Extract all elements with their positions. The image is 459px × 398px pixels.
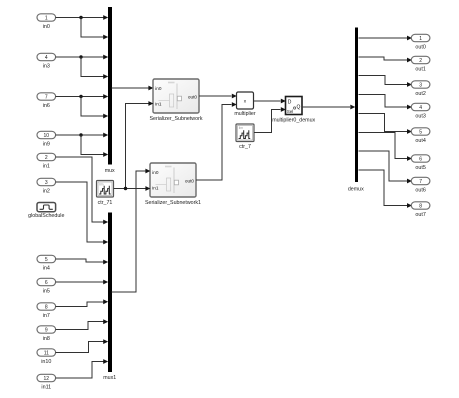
wire in9 branch to mux input — [81, 135, 108, 157]
input port in8 — [37, 326, 56, 342]
wire in7 to mux1 input — [56, 299, 109, 306]
wire demux tap 2 to out1 — [358, 57, 412, 63]
wire in2 to mux1 input 2 — [56, 182, 109, 244]
svg-text:in4: in4 — [43, 266, 50, 272]
counter block ctr_7 — [236, 124, 254, 150]
output port out4 — [411, 128, 430, 144]
multiplier block — [234, 92, 255, 117]
svg-text:9: 9 — [45, 327, 48, 333]
output port out3 — [411, 103, 430, 119]
junction on ctr_71 wire — [124, 187, 127, 190]
svg-text:4: 4 — [45, 55, 48, 61]
svg-text:in3: in3 — [43, 64, 50, 70]
svg-text:in8: in8 — [43, 336, 50, 342]
input port in7 — [37, 303, 56, 319]
output port out1 — [411, 56, 430, 72]
wire in4 to mux1 input — [56, 259, 109, 264]
svg-text:3: 3 — [45, 180, 48, 186]
input port in9 — [37, 131, 56, 147]
wire in11 to mux1 input — [56, 359, 109, 378]
wire multiplier output to multiplier0_demux D — [254, 99, 286, 104]
svg-text:Serializer_Subnetwork1: Serializer_Subnetwork1 — [145, 200, 201, 206]
junction on in6 wire — [79, 95, 82, 98]
wire in9 to mux input — [56, 133, 109, 138]
output port out2 — [411, 81, 430, 97]
svg-text:mux: mux — [105, 168, 115, 174]
input port in1 — [37, 153, 56, 169]
wire ctr_7 output to multiplier0_demux Sel — [254, 107, 286, 132]
output port out0 — [411, 34, 430, 50]
block globalSchedule — [28, 203, 64, 219]
svg-text:out6: out6 — [415, 187, 426, 193]
svg-text:multiplier0_demux: multiplier0_demux — [272, 118, 315, 124]
input port in2 — [37, 178, 56, 194]
input port in3 — [37, 53, 56, 69]
svg-text:multiplier: multiplier — [234, 111, 255, 117]
input port in11 — [37, 374, 56, 390]
svg-text:out7: out7 — [415, 212, 426, 218]
svg-text:out5: out5 — [415, 165, 426, 171]
svg-text:globalSchedule: globalSchedule — [28, 213, 64, 219]
wire in10 to mux1 input — [56, 339, 109, 352]
wire Serializer_Subnetwork out0 to multiplier — [199, 94, 237, 99]
junction on in0 wire — [79, 16, 82, 19]
svg-text:in1: in1 — [155, 101, 162, 106]
svg-text:out3: out3 — [415, 113, 426, 119]
svg-text:11: 11 — [44, 350, 49, 356]
svg-text:in1: in1 — [152, 185, 159, 190]
svg-text:2: 2 — [419, 58, 422, 64]
svg-text:in1: in1 — [43, 164, 50, 170]
svg-text:2: 2 — [45, 155, 48, 161]
wire demux tap 1 to out0 — [358, 36, 412, 41]
subsystem block Serializer_Subnetwork — [150, 79, 203, 122]
svg-text:D: D — [288, 100, 292, 106]
svg-text:ctr_7: ctr_7 — [239, 144, 251, 150]
wire in1 to mux1 input 1 — [56, 157, 109, 224]
wire mux1 output to Serializer_Subnetwork1 in0 — [112, 169, 151, 292]
svg-text:in7: in7 — [43, 313, 50, 319]
svg-text:6: 6 — [419, 156, 422, 162]
mux bar (mux) — [105, 7, 115, 174]
svg-text:demux: demux — [348, 186, 364, 192]
svg-text:in2: in2 — [43, 189, 50, 195]
svg-text:out0: out0 — [185, 178, 195, 183]
svg-text:in5: in5 — [43, 289, 50, 295]
subsystem block Serializer_Subnetwork1 — [145, 163, 201, 206]
wire in6 to mux input — [56, 94, 109, 99]
svg-text:out0: out0 — [188, 94, 198, 99]
wire in5 to mux1 input — [56, 280, 109, 285]
svg-text:ctr_71: ctr_71 — [98, 200, 113, 206]
svg-text:out2: out2 — [415, 91, 426, 97]
wire in3 to mux input — [56, 55, 109, 60]
wire demux tap 7 to out6 — [358, 151, 412, 183]
svg-text:lim: lim — [99, 183, 103, 187]
wire demux tap 8 to out7 — [358, 170, 412, 208]
wire in8 to mux1 input — [56, 319, 109, 329]
svg-text:out1: out1 — [415, 66, 426, 72]
wire in0 branch to mux input — [81, 18, 108, 40]
svg-text:8: 8 — [419, 203, 422, 209]
output port out6 — [411, 177, 430, 193]
wire ctr_71 output to serializer in1 ports — [114, 101, 154, 191]
svg-text:Q: Q — [297, 105, 301, 111]
svg-text:12: 12 — [44, 376, 50, 382]
svg-text:5: 5 — [419, 129, 422, 135]
svg-text:5: 5 — [45, 257, 48, 263]
svg-text:in0: in0 — [152, 170, 159, 175]
svg-text:7: 7 — [45, 94, 48, 100]
demux select block multiplier0_demux — [272, 97, 315, 124]
wire demux tap 3 to out2 — [358, 76, 412, 87]
wire demux tap 4 to out3 — [358, 95, 412, 110]
wire demux tap 6 to out5 — [358, 132, 412, 161]
svg-text:6: 6 — [45, 280, 48, 286]
svg-text:4: 4 — [419, 105, 422, 111]
wire mux output to Serializer_Subnetwork in0 — [112, 86, 154, 91]
input port in10 — [37, 349, 56, 365]
svg-text:in6: in6 — [43, 103, 50, 109]
svg-text:1: 1 — [45, 15, 48, 21]
wire demux tap 5 to out4 — [358, 113, 412, 133]
svg-text:Serializer_Subnetwork: Serializer_Subnetwork — [150, 116, 203, 122]
svg-text:in10: in10 — [41, 359, 51, 365]
svg-text:in0: in0 — [155, 86, 162, 91]
mux1 bar (mux1) — [103, 212, 116, 380]
input port in5 — [37, 278, 56, 294]
input port in4 — [37, 255, 56, 271]
wire in0 to mux input — [56, 15, 109, 20]
svg-text:7: 7 — [419, 179, 422, 185]
counter block ctr_71 — [97, 181, 114, 207]
svg-text:8: 8 — [45, 304, 48, 310]
wire in3 branch to mux input — [81, 57, 108, 79]
wire Serializer_Subnetwork1 out0 to multiplier — [196, 102, 237, 180]
svg-text:in0: in0 — [43, 24, 50, 30]
svg-text:1: 1 — [419, 36, 422, 42]
junction on in9 wire — [79, 133, 82, 136]
svg-text:in9: in9 — [43, 142, 50, 148]
svg-text:out4: out4 — [415, 138, 426, 144]
output port out7 — [411, 202, 430, 218]
input port in0 — [37, 14, 56, 30]
svg-text:10: 10 — [44, 133, 50, 139]
output port out5 — [411, 155, 430, 171]
svg-text:out0: out0 — [415, 44, 426, 50]
wire multiplier0_demux Q to demux bar — [302, 105, 355, 110]
svg-text:3: 3 — [419, 82, 422, 88]
demux bar (demux) — [348, 28, 364, 193]
junction on in3 wire — [79, 55, 82, 58]
svg-text:in11: in11 — [41, 385, 51, 391]
svg-text:mux1: mux1 — [103, 375, 116, 381]
input port in6 — [37, 93, 56, 109]
svg-text:Sel: Sel — [287, 109, 293, 114]
svg-text:lim: lim — [239, 126, 243, 130]
wire in6 branch to mux input — [81, 97, 108, 119]
